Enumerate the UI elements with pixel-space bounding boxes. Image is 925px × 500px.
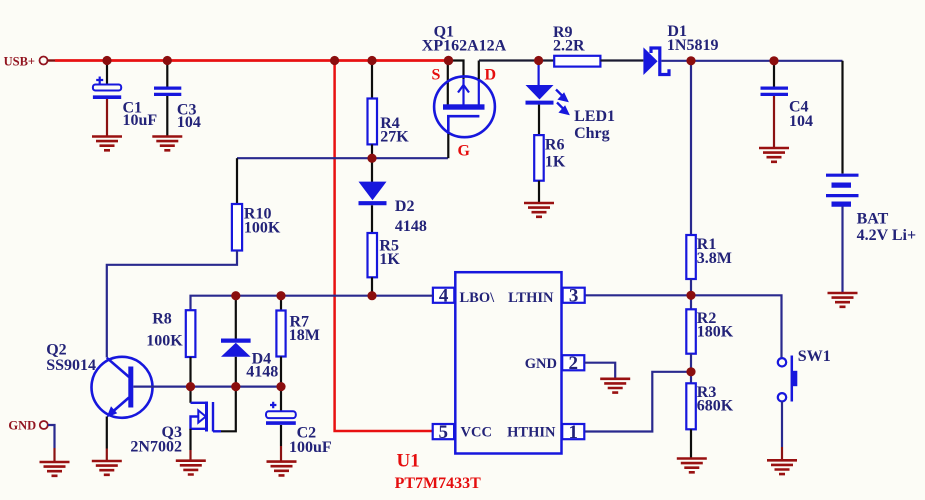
svg-text:PT7M7433T: PT7M7433T: [395, 475, 482, 492]
svg-text:4.2V Li+: 4.2V Li+: [857, 227, 917, 244]
terminal USB+: [4, 54, 55, 68]
svg-text:1: 1: [568, 422, 578, 443]
node LED1 rail: [534, 56, 543, 65]
pin 3 (LTHIN): [563, 288, 585, 303]
ground (C1): [92, 137, 122, 151]
node VCC rail: [330, 56, 339, 65]
switch SW1: [778, 348, 831, 460]
svg-text:10uF: 10uF: [123, 112, 158, 129]
pin 1 (HTHIN): [562, 424, 584, 439]
svg-text:S: S: [432, 66, 441, 83]
capacitor C4: [761, 62, 814, 148]
wire gate line (R10 to Q1 G): [237, 157, 448, 159]
svg-text:5: 5: [439, 422, 449, 443]
ground (C2): [267, 462, 297, 476]
node Q1 S rail: [444, 56, 453, 65]
resistor R9: [553, 24, 600, 67]
resistor R10: [232, 158, 281, 250]
diode D4: [221, 297, 278, 386]
ground (R6): [524, 203, 554, 217]
svg-text:180K: 180K: [697, 323, 734, 340]
svg-text:2N7002: 2N7002: [130, 438, 182, 455]
svg-text:R8: R8: [152, 310, 172, 327]
svg-text:1K: 1K: [545, 153, 566, 170]
pin 4 (LBO): [433, 288, 454, 303]
node R8 base: [186, 382, 195, 391]
node R1 R2: [686, 291, 695, 300]
svg-text:18M: 18M: [289, 327, 320, 344]
wire VCC red: rail to U1 pin 5: [335, 61, 433, 432]
svg-text:XP162A12A: XP162A12A: [422, 37, 507, 54]
node R5 LBO: [367, 291, 376, 300]
capacitor C2: [266, 388, 332, 461]
svg-text:680K: 680K: [697, 397, 734, 414]
capacitor C3: [154, 62, 201, 136]
svg-text:R6: R6: [545, 136, 565, 153]
svg-text:SW1: SW1: [798, 348, 831, 365]
transistor Q3 (NMOS 2N7002): [130, 388, 235, 460]
svg-text:3: 3: [569, 286, 579, 307]
svg-text:1K: 1K: [379, 251, 400, 268]
ground (Q2): [92, 461, 122, 475]
ground (battery): [828, 293, 858, 307]
node D1 cathode: [686, 56, 695, 65]
node R7 LBO: [276, 291, 285, 300]
terminal GND: [8, 419, 54, 462]
resistor R1: [686, 62, 732, 295]
svg-text:104: 104: [789, 113, 813, 130]
ground (Q3): [176, 461, 206, 475]
ground (R3): [677, 459, 707, 473]
node R4 rail: [367, 56, 376, 65]
transistor Q2 (NPN SS9014): [46, 341, 152, 460]
ground (SW1): [767, 460, 797, 474]
pin 5 (VCC): [433, 424, 454, 439]
svg-text:Chrg: Chrg: [574, 125, 610, 142]
wire LBO line (R8 to pin 4): [191, 296, 433, 311]
wire LTHIN line (pin 3 to R1/R2 node and SW1): [585, 295, 782, 358]
wire rail Q1 D to R9: [479, 59, 554, 61]
svg-text:100uF: 100uF: [289, 439, 332, 456]
node D4 base: [231, 382, 240, 391]
IC U1 PT7M7433T: [395, 272, 585, 492]
wire pin 2 to ground: [585, 363, 616, 379]
node gate line: [367, 154, 376, 163]
svg-text:2: 2: [568, 353, 578, 374]
ground (C4): [759, 148, 789, 162]
wire base line (Q2 to R8/D4/R7/C2): [133, 386, 281, 388]
svg-text:G: G: [458, 143, 471, 160]
resistor R7: [276, 297, 320, 386]
resistor R4: [368, 62, 410, 157]
resistor R6: [534, 135, 566, 202]
svg-text:D2: D2: [395, 198, 415, 215]
svg-text:27K: 27K: [380, 128, 409, 145]
svg-text:USB+: USB+: [4, 54, 35, 68]
resistor R2: [686, 297, 734, 384]
svg-text:VCC: VCC: [461, 424, 492, 440]
node C3 rail: [163, 56, 172, 65]
svg-text:100K: 100K: [146, 332, 183, 349]
diode D2: [359, 159, 427, 235]
svg-text:Q2: Q2: [46, 341, 66, 358]
svg-text:1N5819: 1N5819: [667, 37, 719, 54]
svg-text:2.2R: 2.2R: [553, 37, 585, 54]
ground (C3): [152, 137, 182, 151]
wire rail D1 to battery: [691, 60, 843, 62]
pin 2 (GND): [562, 355, 584, 370]
node C4 rail: [769, 56, 778, 65]
transistor Q1 (P-MOSFET XP162A12A): [422, 23, 507, 159]
node dots: [102, 56, 778, 391]
node D4 LBO: [231, 291, 240, 300]
wire R10 to Q2 collector: [107, 251, 237, 358]
resistor R5: [368, 233, 401, 296]
LED LED1: [526, 62, 616, 142]
svg-text:U1: U1: [397, 451, 420, 472]
wire R9 to D1: [600, 59, 643, 61]
svg-text:4148: 4148: [246, 363, 278, 380]
node C1 rail: [102, 56, 111, 65]
svg-text:GND: GND: [525, 356, 557, 372]
svg-text:BAT: BAT: [857, 210, 889, 227]
svg-text:4: 4: [439, 286, 449, 307]
svg-text:HTHIN: HTHIN: [507, 424, 556, 440]
svg-text:4148: 4148: [395, 218, 427, 235]
resistor R3: [686, 383, 734, 458]
capacitor C1: [93, 62, 157, 136]
battery BAT: [826, 61, 916, 292]
ground (GND terminal): [40, 462, 70, 476]
wire HTHIN (pin 1 to R2/R3 node): [585, 372, 690, 432]
svg-text:D: D: [485, 66, 497, 83]
svg-text:LTHIN: LTHIN: [508, 290, 554, 306]
ground (U1 pin 2): [600, 379, 630, 393]
resistor R8: [146, 310, 195, 385]
svg-text:GND: GND: [8, 419, 36, 433]
svg-text:104: 104: [177, 114, 201, 131]
wire USB+ rail (red): [55, 59, 449, 62]
svg-text:3.8M: 3.8M: [697, 250, 732, 267]
diode D1 (Schottky 1N5819): [643, 23, 718, 75]
node R7 C2: [276, 382, 285, 391]
svg-text:LBO\: LBO\: [460, 290, 496, 306]
node R2 R3: [686, 367, 695, 376]
svg-text:100K: 100K: [244, 219, 281, 236]
svg-text:SS9014: SS9014: [46, 357, 96, 374]
svg-text:LED1: LED1: [574, 108, 615, 125]
